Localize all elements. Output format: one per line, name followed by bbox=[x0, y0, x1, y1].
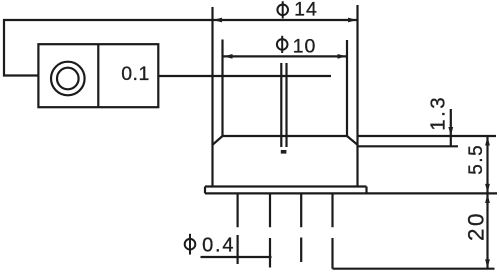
svg-text:0.1: 0.1 bbox=[121, 63, 150, 85]
svg-text:5.5: 5.5 bbox=[466, 144, 487, 175]
svg-text:20: 20 bbox=[463, 211, 488, 241]
svg-text:14: 14 bbox=[294, 0, 318, 21]
svg-text:10: 10 bbox=[293, 35, 317, 57]
svg-text:1.3: 1.3 bbox=[427, 95, 450, 131]
svg-text:0.4: 0.4 bbox=[202, 235, 235, 257]
